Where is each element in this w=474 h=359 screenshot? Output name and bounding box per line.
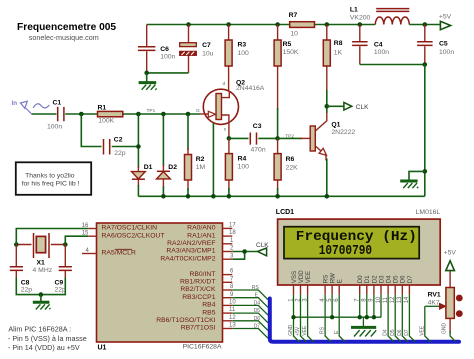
svg-text:22K: 22K (286, 164, 299, 171)
svg-text:R5: R5 (283, 41, 292, 48)
transistor Q2 2N4416A (JFET) (196, 79, 265, 138)
LCD pin name labels (291, 270, 414, 284)
svg-text:100K: 100K (98, 118, 114, 125)
svg-text:VEE: VEE (302, 325, 308, 336)
wire ground rail (138, 195, 424, 197)
svg-text:RB3/CCP1: RB3/CCP1 (182, 294, 215, 301)
inductor L1 (350, 7, 409, 25)
svg-text:RA7/OSC1/CLKIN: RA7/OSC1/CLKIN (102, 225, 158, 232)
node CLK (input flag at PIC) (256, 242, 269, 256)
svg-text:22p: 22p (55, 287, 67, 294)
junction C2/D1 (136, 144, 141, 149)
svg-text:100n: 100n (47, 123, 62, 130)
wire LCD GND net horizontal (294, 316, 382, 318)
svg-text:C3: C3 (253, 123, 262, 130)
svg-text:R2: R2 (196, 156, 205, 163)
pin 2 RA3/AN3/CMP1 (166, 246, 234, 255)
wire C2 branch (81, 114, 138, 168)
pin 9 RB3/CCP1 (182, 292, 234, 301)
svg-text:C4: C4 (374, 41, 383, 48)
svg-text:VK200: VK200 (350, 14, 371, 21)
wire C6-C7 bottom (147, 72, 189, 74)
svg-text:VEE: VEE (419, 325, 425, 336)
svg-text:D5: D5 (390, 329, 396, 336)
svg-text:100: 100 (238, 50, 250, 57)
svg-text:D3: D3 (378, 275, 385, 283)
svg-text:10: 10 (229, 300, 236, 306)
pin 6 RB0/INT (189, 269, 234, 278)
svg-text:VEE: VEE (305, 271, 312, 283)
diode D2 (157, 114, 178, 188)
svg-text:18: 18 (229, 230, 236, 236)
svg-text:D2: D2 (168, 164, 177, 171)
wires D0-D3 pins to GND net (360, 295, 381, 318)
svg-text:D5: D5 (393, 275, 400, 283)
power flag +5V top right (439, 14, 452, 30)
wire Q1 emitter to ground rail (326, 159, 328, 197)
svg-text:100n: 100n (439, 49, 454, 56)
wire +5V top rail (147, 24, 441, 26)
pin 7 RB1/RX/DT (180, 276, 234, 285)
svg-text:GND: GND (441, 323, 447, 335)
capacitor C8 (10, 245, 32, 294)
svg-text:Q1: Q1 (331, 122, 340, 129)
svg-text:D5: D5 (254, 308, 261, 314)
svg-text:470n: 470n (251, 147, 266, 154)
svg-text:C8: C8 (21, 280, 30, 287)
svg-text:D0: D0 (357, 275, 364, 283)
resistor R4 (225, 138, 249, 196)
junction C4/rail (358, 22, 363, 27)
svg-text:R4: R4 (238, 156, 247, 163)
svg-text:R3: R3 (238, 41, 247, 48)
junction VSS/GND (291, 315, 295, 319)
resistor R8 (323, 25, 342, 107)
capacitor C3 (250, 123, 266, 153)
svg-text:D7: D7 (404, 329, 410, 336)
svg-text:11: 11 (229, 307, 236, 313)
svg-text:+5V: +5V (444, 249, 457, 256)
wire right vertical to ground rail (424, 65, 426, 197)
svg-text:RV1: RV1 (428, 292, 441, 299)
wire RS pin4 to bus (325, 295, 331, 342)
wire VSS pin1 down to bus (294, 295, 300, 342)
svg-text:In: In (12, 100, 18, 107)
note alim text (8, 325, 87, 352)
svg-text:D4: D4 (386, 275, 393, 283)
junction D0/GND (358, 315, 362, 319)
junction R5/rail (275, 22, 280, 27)
junction pins2-3 (242, 249, 247, 254)
node In (input symbol) (12, 100, 50, 114)
svg-text:RS: RS (252, 285, 260, 291)
svg-text:D1: D1 (364, 275, 371, 283)
wire D2 to ground rail (162, 187, 164, 197)
svg-text:Frequencemetre 005: Frequencemetre 005 (17, 22, 116, 33)
note box thanks (16, 162, 91, 195)
junction RW/GND (330, 315, 334, 319)
resistor R1 (98, 104, 123, 124)
svg-text:RA4/T0CKI/CMP2: RA4/T0CKI/CMP2 (160, 255, 215, 262)
svg-text:RB7/T1OSI: RB7/T1OSI (181, 325, 216, 332)
wire D4 pin11 to bus (388, 295, 394, 342)
svg-text:- Pin 5 (VSS) à la masse: - Pin 5 (VSS) à la masse (8, 334, 87, 343)
junction R2/rail (186, 194, 191, 199)
svg-text:d: d (223, 81, 226, 87)
wire VEE pin3 to bus (308, 295, 314, 342)
svg-text:D4: D4 (383, 329, 389, 336)
svg-text:Alim PIC 16F628A :: Alim PIC 16F628A : (8, 325, 71, 334)
svg-text:G: G (196, 108, 200, 114)
transistor Q1 2N2222 (278, 106, 356, 160)
resistor R2 (185, 114, 206, 196)
svg-text:C2: C2 (114, 137, 123, 144)
wire C8-C9 bottom (16, 278, 65, 295)
svg-text:L1: L1 (350, 7, 358, 14)
svg-text:Thanks to yo2lio: Thanks to yo2lio (25, 172, 75, 179)
svg-text:RA0/AN0: RA0/AN0 (187, 225, 216, 232)
wire D6 pin12 to bus (232, 321, 268, 331)
node CLK (output flag) (327, 103, 369, 111)
pin 4 RA5/MCLR (82, 248, 136, 257)
capacitor C1 (47, 100, 64, 131)
svg-text:R6: R6 (286, 156, 295, 163)
pin 13 RB7/T1OSI (181, 323, 237, 332)
svg-text:10: 10 (290, 30, 298, 37)
svg-text:RS: RS (323, 275, 330, 284)
svg-text:10700790: 10700790 (319, 244, 372, 259)
IC U1 PIC16F628A body (97, 223, 223, 342)
junction D2 branch (161, 112, 166, 117)
svg-text:100n: 100n (374, 49, 389, 56)
svg-text:R1: R1 (98, 104, 107, 111)
resistor R6 (274, 138, 298, 196)
svg-text:CLK: CLK (256, 242, 269, 249)
LCD pin stubs (294, 285, 410, 295)
svg-text:12: 12 (229, 315, 236, 321)
svg-text:RB0/INT: RB0/INT (189, 271, 215, 278)
wire D7 pin13 to bus (232, 329, 268, 339)
svg-text:TP1: TP1 (147, 108, 156, 114)
svg-text:D6: D6 (400, 275, 407, 283)
svg-text:+5V: +5V (439, 14, 452, 21)
svg-text:16: 16 (82, 223, 89, 229)
svg-text:RB2/TX/CK: RB2/TX/CK (180, 286, 216, 293)
svg-text:100n: 100n (160, 54, 175, 61)
wire RW pin5 to GND net (331, 295, 333, 318)
capacitor C2 (104, 137, 126, 157)
potentiometer RV1 4K7 (428, 271, 463, 333)
junction Q1/rail (325, 194, 330, 199)
wire CLK input to pins 2,3 (232, 252, 257, 260)
svg-text:PIC16F628A: PIC16F628A (183, 344, 222, 351)
svg-text:LCD1: LCD1 (276, 209, 294, 216)
bus (blue) (270, 299, 459, 342)
LCD pin numbers (288, 296, 410, 303)
pin 8 RB2/TX/CK (180, 284, 234, 293)
capacitor C7 (polarized 10u) (180, 25, 214, 73)
resistor R3 (225, 25, 249, 91)
svg-text:RS: RS (320, 326, 326, 334)
svg-text:RA5/MCLR: RA5/MCLR (102, 250, 136, 257)
ground (under X1) (33, 295, 51, 310)
svg-text:RA3/AN3/CMP1: RA3/AN3/CMP1 (166, 248, 215, 255)
junction R6/rail (275, 194, 280, 199)
svg-text:GND: GND (288, 324, 294, 336)
svg-text:RB6/T1OSO/T1CKI: RB6/T1OSO/T1CKI (156, 317, 215, 324)
wire D6 pin13 to bus (402, 295, 408, 342)
wire D1 to ground rail (137, 185, 139, 196)
svg-text:VSS: VSS (291, 271, 298, 283)
svg-text:R7: R7 (289, 12, 298, 19)
svg-text:RB5: RB5 (202, 309, 215, 316)
wire X1 to pin15 (65, 236, 88, 244)
svg-text:D6: D6 (254, 316, 261, 322)
svg-text:4 MHz: 4 MHz (33, 267, 53, 274)
svg-text:- Pin 14 (VDD) au +5V: - Pin 14 (VDD) au +5V (8, 343, 80, 352)
pin 18 RA1/AN1 (187, 230, 236, 239)
wire RV1 wiper to VEE (419, 303, 445, 341)
svg-text:C1: C1 (53, 100, 62, 107)
pin 3 RA4/T0CKI/CMP2 (160, 253, 234, 262)
wire input signal line (32, 113, 200, 115)
pin 11 RB5 (202, 307, 236, 316)
junction D2/rail (161, 194, 166, 199)
junction C5 bottom (423, 62, 428, 67)
svg-text:U1: U1 (98, 345, 107, 352)
svg-text:Frequency (Hz): Frequency (Hz) (296, 230, 417, 245)
wire D4 pin10 to bus (232, 305, 268, 315)
junction CLK node (325, 104, 330, 109)
pin 16 RA7/OSC1/CLKIN (82, 223, 157, 232)
junction C6 bottom (144, 71, 149, 76)
wire Q2 case to ground rail (212, 123, 214, 197)
svg-text:D2: D2 (371, 275, 378, 283)
svg-text:1M: 1M (196, 164, 206, 171)
junction C7/rail (186, 22, 191, 27)
svg-text:VDD: VDD (298, 270, 305, 284)
ground (LCD data) (351, 317, 376, 336)
wire VDD pin2 to bus (301, 295, 307, 342)
svg-text:100: 100 (238, 164, 250, 171)
pin 12 RB6/T1OSO/T1CKI (156, 315, 236, 324)
svg-text:LM016L: LM016L (416, 209, 441, 216)
junction X1 left (14, 242, 19, 247)
junction Q2case/rail (211, 194, 216, 199)
svg-text:D4: D4 (254, 300, 261, 306)
svg-text:17: 17 (229, 223, 236, 229)
svg-text:C6: C6 (160, 46, 169, 53)
pin 15 RA6/OSC2/CLKOUT (82, 231, 165, 240)
wire C4-C5 bottom (360, 64, 425, 66)
svg-text:D7: D7 (254, 324, 261, 330)
svg-text:C5: C5 (439, 40, 448, 47)
junction R4/rail (227, 194, 232, 199)
wire source node to C3 (229, 137, 278, 139)
svg-text:RW: RW (330, 273, 337, 283)
wire RV1 bottom to bus GND (450, 331, 455, 341)
node TP2 (275, 136, 280, 141)
junction ground X1 (39, 292, 44, 297)
resistor R7 (289, 12, 315, 37)
svg-text:1K: 1K (334, 49, 343, 56)
capacitor C9 (55, 245, 72, 294)
svg-text:RA1/AN1: RA1/AN1 (187, 232, 216, 239)
pin 10 RB4 (202, 300, 236, 309)
ground (right side) (400, 171, 425, 188)
resistor R5 (274, 25, 299, 139)
svg-text:22p: 22p (21, 287, 33, 294)
svg-text:22p: 22p (114, 150, 126, 157)
svg-text:sonelec-musique.com: sonelec-musique.com (29, 33, 99, 42)
svg-text:X1: X1 (37, 259, 46, 266)
capacitor C6 (138, 25, 176, 73)
svg-text:D6: D6 (397, 329, 403, 336)
wire RS pin8 to bus (232, 290, 268, 300)
svg-text:E: E (337, 279, 344, 283)
svg-text:15: 15 (82, 231, 89, 237)
junction D2/GND (372, 315, 376, 319)
svg-text:C7: C7 (202, 42, 211, 49)
power flag +5V at RV1 (444, 249, 457, 270)
wire X1 to pin16 (16, 229, 88, 245)
svg-text:C9: C9 (55, 280, 64, 287)
svg-text:2N4416A: 2N4416A (236, 85, 265, 92)
svg-text:RA2/AN2/VREF: RA2/AN2/VREF (167, 240, 215, 247)
capacitor C5 (417, 25, 454, 65)
junction C5/rail (423, 22, 428, 27)
junction ground stub right (423, 169, 428, 174)
junction X1 right (63, 242, 68, 247)
junction R3/rail (226, 22, 231, 27)
LCD1 module LM016L (276, 209, 441, 285)
capacitor C4 (352, 25, 389, 65)
wire E pin6 to bus (339, 295, 345, 342)
wire D5 pin11 to bus (232, 313, 268, 323)
svg-text:CLK: CLK (356, 104, 369, 111)
pin 17 RA0/AN0 (187, 223, 236, 232)
svg-text:2N2222: 2N2222 (331, 129, 355, 136)
junction R2 branch (186, 112, 191, 117)
junction D1/GND (365, 315, 369, 319)
svg-text:+5V: +5V (295, 326, 301, 336)
wire E pin9 to bus (232, 298, 268, 308)
junction R8/rail (325, 22, 330, 27)
svg-text:RB4: RB4 (202, 302, 215, 309)
ground (under C6) (139, 73, 157, 90)
wire D5 pin12 to bus (395, 295, 401, 342)
junction C2 branch (79, 112, 84, 117)
junction D1 branch (136, 112, 141, 117)
junction Q2 source node (227, 136, 232, 141)
pin 1 RA2/AN2/VREF (167, 238, 234, 247)
svg-text:13: 13 (229, 323, 236, 329)
svg-text:10u: 10u (202, 51, 214, 58)
svg-text:R8: R8 (334, 40, 343, 47)
svg-text:D1: D1 (144, 164, 153, 171)
svg-text:150K: 150K (283, 49, 299, 56)
svg-text:D7: D7 (407, 275, 414, 283)
svg-text:RA6/OSC2/CLKOUT: RA6/OSC2/CLKOUT (102, 232, 165, 239)
svg-text:for his freq PIC lib !: for his freq PIC lib ! (22, 181, 80, 188)
diode D1 (132, 164, 153, 187)
wire D7 pin14 to bus (409, 295, 415, 342)
crystal X1 (16, 233, 65, 274)
svg-text:RB1/RX/DT: RB1/RX/DT (180, 279, 216, 286)
